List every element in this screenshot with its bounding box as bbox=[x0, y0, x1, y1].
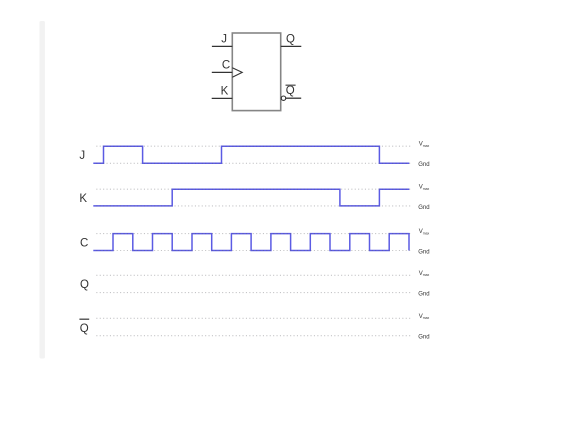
inversion bubble on Q-bar bbox=[281, 96, 285, 100]
svg-text:Gnd: Gnd bbox=[418, 205, 429, 211]
svg-text:Q: Q bbox=[286, 85, 295, 97]
row C: Vcc dotted line bbox=[96, 233, 411, 235]
svg-text:J: J bbox=[79, 150, 85, 162]
svg-text:Gnd: Gnd bbox=[418, 249, 429, 255]
wire J input bbox=[212, 45, 232, 47]
svg-text:Gnd: Gnd bbox=[418, 292, 429, 298]
svg-text:max: max bbox=[423, 316, 430, 320]
svg-text:Gnd: Gnd bbox=[418, 162, 429, 168]
scrollbar bbox=[40, 21, 45, 359]
svg-text:Q: Q bbox=[286, 33, 295, 45]
waveform C clock bbox=[93, 234, 409, 251]
svg-text:K: K bbox=[221, 85, 229, 97]
svg-text:Q: Q bbox=[80, 323, 89, 335]
wire Q-bar output bbox=[286, 97, 301, 99]
svg-text:C: C bbox=[80, 237, 88, 249]
svg-text:max: max bbox=[423, 144, 430, 148]
row Q-bar: Vcc dotted line bbox=[96, 317, 411, 319]
row Q: Vcc dotted line bbox=[96, 274, 411, 276]
row K: Gnd dotted line bbox=[96, 205, 411, 207]
row K: Vcc dotted line bbox=[96, 188, 411, 190]
row J: Gnd dotted line bbox=[96, 162, 411, 164]
svg-text:max: max bbox=[423, 187, 430, 191]
flip-flop U1 body bbox=[232, 33, 280, 111]
svg-text:C: C bbox=[222, 59, 230, 71]
wire Q output bbox=[281, 45, 302, 47]
svg-text:Gnd: Gnd bbox=[418, 335, 429, 341]
row J: Vcc dotted line bbox=[96, 145, 411, 147]
wire C clock input bbox=[212, 71, 233, 73]
row Q: Gnd dotted line bbox=[96, 292, 411, 294]
row Q-bar: Gnd dotted line bbox=[96, 335, 411, 337]
waveform K bbox=[93, 189, 409, 206]
wire K input bbox=[212, 97, 233, 99]
svg-text:Q: Q bbox=[80, 279, 89, 291]
waveform J bbox=[93, 146, 409, 163]
svg-text:max: max bbox=[423, 273, 430, 277]
svg-text:max: max bbox=[423, 231, 430, 235]
clock edge triangle bbox=[232, 68, 242, 78]
row C: Gnd dotted line bbox=[96, 250, 411, 252]
svg-text:K: K bbox=[79, 193, 87, 205]
svg-text:J: J bbox=[221, 33, 227, 45]
